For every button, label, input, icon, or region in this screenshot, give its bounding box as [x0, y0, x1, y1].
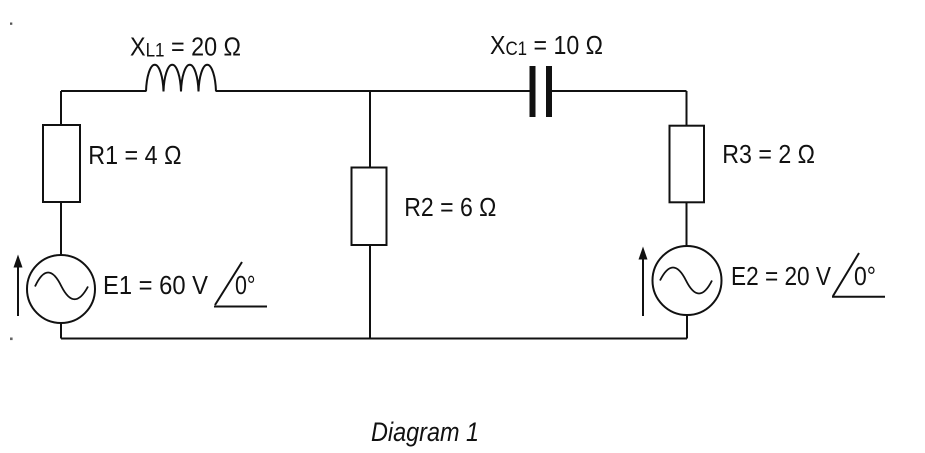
bottom wire	[61, 338, 687, 340]
capacitor XC1 left plate	[530, 66, 536, 117]
wire: left branch upper	[60, 91, 62, 125]
current arrow line for E2	[642, 258, 644, 316]
svg-text:0°: 0°	[854, 261, 876, 291]
svg-text:E2 = 20 V: E2 = 20 V	[731, 261, 832, 291]
svg-text:E1 = 60 V: E1 = 60 V	[103, 270, 209, 300]
wire: top horizontal left segment	[61, 90, 146, 92]
source E1	[27, 255, 95, 323]
wire: top horizontal middle segment	[216, 90, 530, 92]
current arrow head for E1	[14, 255, 23, 268]
wire: top horizontal right segment	[552, 90, 687, 92]
inductor XL1	[146, 65, 216, 92]
current arrow head for E2	[639, 247, 648, 260]
wire: middle branch upper	[369, 91, 371, 168]
svg-text:XL1 = 20 Ω: XL1 = 20 Ω	[130, 31, 241, 61]
resistor R3	[670, 126, 705, 203]
wire: right branch upper	[686, 91, 688, 126]
current arrow line for E1	[17, 266, 19, 316]
stray dot top left	[10, 23, 12, 25]
wire: right branch middle	[686, 202, 688, 246]
source E2	[653, 246, 722, 315]
stray dot bottom left	[10, 338, 13, 341]
svg-text:0°: 0°	[235, 270, 256, 300]
angle symbol of E1 label	[214, 262, 267, 307]
wire: right branch lower	[686, 315, 688, 339]
sine wave of E2	[660, 268, 712, 294]
wire: left branch middle	[60, 202, 62, 255]
wire: middle branch lower	[369, 245, 371, 339]
resistor R1	[43, 125, 80, 202]
svg-text:Diagram 1: Diagram 1	[371, 417, 479, 447]
svg-text:XC1 = 10 Ω: XC1 = 10 Ω	[490, 30, 603, 60]
resistor R2	[352, 168, 387, 246]
capacitor XC1 right plate	[546, 66, 552, 117]
sine wave of E1	[35, 273, 88, 300]
angle symbol of E2 label	[832, 253, 885, 297]
svg-text:R1 = 4 Ω: R1 = 4 Ω	[88, 140, 181, 170]
svg-text:R3 = 2 Ω: R3 = 2 Ω	[722, 139, 815, 169]
svg-text:R2 = 6 Ω: R2 = 6 Ω	[404, 192, 496, 222]
wire: left branch lower	[60, 323, 62, 339]
